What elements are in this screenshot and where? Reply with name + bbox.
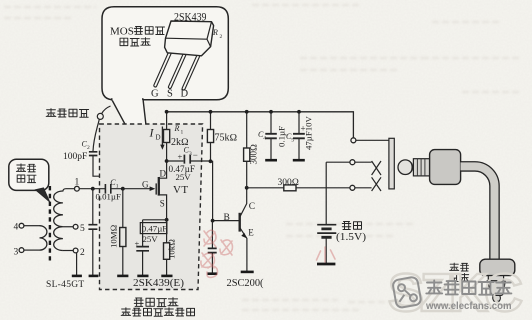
svg-text:5: 5: [291, 138, 294, 144]
svg-text:VT: VT: [173, 184, 188, 196]
wire to tuning cap: [92, 189, 94, 225]
callout tail: [112, 99, 152, 174]
svg-text:2: 2: [80, 248, 85, 258]
svg-text:0.01µF: 0.01µF: [96, 192, 121, 202]
svg-text:47µF10V: 47µF10V: [304, 115, 314, 150]
resistor 75k: [210, 112, 212, 162]
capacitor 0.1uF: [270, 112, 272, 134]
svg-text:D: D: [181, 89, 189, 100]
svg-text:1: 1: [181, 130, 184, 136]
wire: [24, 225, 40, 227]
ground bar: [207, 272, 217, 275]
svg-text:100pF: 100pF: [63, 152, 87, 162]
node drain: [165, 159, 169, 163]
wire terminal2 to ground: [76, 253, 78, 276]
jack terminal top: [351, 138, 356, 143]
plug shaft: [413, 159, 429, 176]
terminal 3: [24, 249, 40, 251]
svg-text:R: R: [174, 124, 180, 133]
left winding loops: [40, 226, 47, 250]
jack terminal middle: [350, 160, 355, 165]
svg-text:S: S: [167, 89, 173, 100]
svg-text:C: C: [249, 202, 255, 212]
ground bar: [241, 271, 254, 274]
terminal 2: [63, 250, 73, 252]
svg-text:300Ω: 300Ω: [249, 144, 259, 165]
capacitor C1 0.01uF: [105, 184, 110, 194]
svg-text:4: 4: [263, 136, 266, 142]
wire jack middle to battery: [325, 162, 327, 224]
svg-text:www.elecfans.com: www.elecfans.com: [425, 301, 511, 312]
ground bar: [72, 275, 82, 278]
svg-text:E: E: [248, 227, 254, 237]
resistor 300 horizontal: [284, 185, 296, 191]
label 外接天线: [46, 109, 88, 118]
svg-text:300Ω: 300Ω: [278, 178, 300, 188]
boxed label 0.47uF: [140, 223, 167, 234]
svg-text:10kΩ: 10kΩ: [167, 239, 177, 259]
earpiece disc: [480, 259, 515, 275]
dashed box FET bias circuit: [100, 124, 203, 290]
node source: [165, 218, 169, 222]
wire source to cap: [143, 219, 167, 221]
drain wire: [159, 161, 167, 178]
junction gate node: [121, 187, 125, 191]
jack terminal lower: [350, 185, 355, 190]
capacitor C2 100pF: [89, 152, 98, 156]
svg-text:3: 3: [14, 247, 19, 257]
transistor 2SC200: [238, 213, 240, 232]
svg-text:(1.5V): (1.5V): [336, 232, 366, 243]
svg-text:MOS: MOS: [110, 26, 134, 38]
jack plug bar: [389, 138, 394, 189]
earpiece neck: [488, 276, 503, 281]
source wire: [159, 195, 167, 220]
svg-text:2: 2: [220, 34, 223, 40]
wire coil top to terminal 1: [63, 189, 75, 192]
label 晶体耳机: [450, 263, 469, 271]
resistor 10k: [166, 220, 168, 276]
svg-text:D: D: [160, 168, 167, 178]
svg-text:+: +: [178, 152, 183, 162]
ferrite rod (dashed): [49, 186, 51, 261]
caption 场效应管: [134, 298, 178, 307]
ground bar: [89, 275, 99, 278]
svg-text:S: S: [160, 199, 165, 209]
callout bubble 磁棒天线: [9, 159, 49, 190]
svg-text:G: G: [151, 89, 159, 100]
svg-text:D: D: [156, 134, 161, 142]
ground bar: [317, 263, 335, 266]
emitter arrow: [241, 233, 247, 239]
resistor R1 2k: [166, 112, 168, 161]
callout tail: [36, 188, 50, 202]
svg-text:4: 4: [14, 223, 19, 233]
svg-text:3: 3: [189, 151, 192, 157]
svg-text:G: G: [142, 180, 149, 190]
transistor package body 2SK439: [165, 21, 214, 56]
switch contact X1: [372, 161, 381, 175]
svg-text:2: 2: [87, 145, 90, 151]
svg-text:2SC200(: 2SC200(: [227, 278, 265, 289]
main winding loops: [54, 191, 63, 251]
caption 固定式偏置电路: [121, 308, 194, 316]
cable: [461, 166, 495, 259]
wire gate line: [111, 188, 151, 190]
label 电池 (1.5V): [342, 222, 361, 230]
ground bar: [117, 275, 128, 278]
earpiece tip: [487, 281, 505, 296]
svg-text:25V: 25V: [143, 234, 159, 244]
wire antenna to C2: [93, 119, 99, 151]
svg-text:2SK439(E): 2SK439(E): [133, 278, 184, 289]
svg-text:SL-45GT: SL-45GT: [46, 280, 85, 290]
capacitor source bypass electrolytic: [142, 220, 144, 247]
wire C2 to gate node: [93, 156, 123, 189]
svg-text:5: 5: [80, 224, 85, 234]
svg-text:−: −: [193, 150, 198, 160]
capacitor C5 47uF electrolytic: [298, 112, 300, 134]
callout bubble 2SK439 package: [102, 7, 228, 100]
svg-text:75kΩ: 75kΩ: [215, 133, 238, 144]
tap 5: [63, 226, 73, 228]
FET VT 2SK439: [155, 183, 157, 194]
svg-text:25V: 25V: [176, 172, 192, 182]
resistor 300 vertical: [246, 112, 248, 188]
tuning capacitor: [88, 225, 97, 230]
wire: [92, 229, 94, 275]
junction: [91, 187, 95, 191]
wire top rail: [167, 112, 354, 138]
earphone plug tip: [398, 160, 413, 175]
switch contact X2: [372, 177, 381, 191]
wire collector to jack: [247, 187, 350, 189]
svg-text:R: R: [212, 28, 218, 37]
watermark 电子发烧友: [426, 281, 511, 295]
ground bar: [137, 275, 148, 278]
plug body: [430, 150, 461, 185]
gate arrow: [150, 186, 156, 191]
battery 1.5V: [317, 225, 336, 233]
wire node1 line: [79, 188, 105, 190]
wire 75k to base: [211, 161, 239, 220]
wire: [167, 160, 184, 162]
antenna hook: [97, 106, 110, 119]
capacitor C3 0.47uF: [184, 155, 190, 164]
svg-text:B: B: [224, 213, 230, 223]
svg-text:0.1µF: 0.1µF: [277, 126, 287, 147]
svg-text:0.47µF: 0.47µF: [142, 224, 167, 234]
transistor package legs: [155, 48, 172, 86]
red stamp: [201, 230, 335, 277]
wire: [190, 160, 210, 162]
capacitor base bypass: [211, 221, 213, 249]
resistor 10M: [122, 189, 124, 276]
watermark logo: [392, 276, 421, 308]
svg-text:10MΩ: 10MΩ: [109, 224, 119, 248]
